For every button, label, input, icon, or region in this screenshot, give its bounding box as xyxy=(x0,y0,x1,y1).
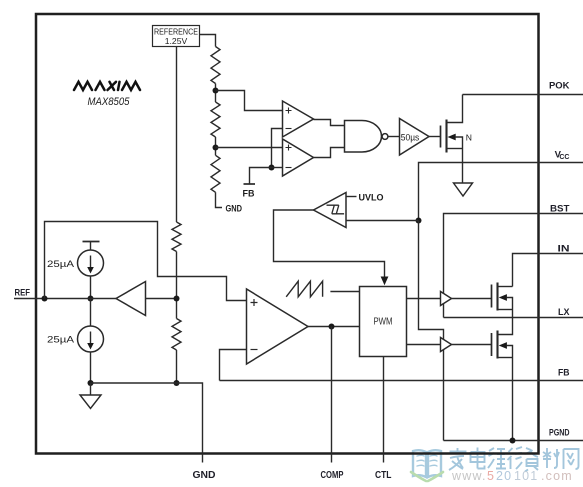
wire driver B to Q3 gate xyxy=(452,344,492,346)
pin wire POK xyxy=(463,94,583,96)
resistor R5 xyxy=(172,319,181,351)
svg-text:REFERENCE: REFERENCE xyxy=(154,26,198,36)
wire tap1 to comparator U1 + input xyxy=(216,91,283,111)
resistor R4 xyxy=(172,222,181,252)
svg-text:CTL: CTL xyxy=(375,470,392,481)
wire error amp minus to FB line xyxy=(220,350,247,381)
reference box U-REF xyxy=(153,26,200,47)
wire REF to error amp + input (crosses divider) xyxy=(45,222,247,301)
node dot I2/gnd rail xyxy=(88,380,94,386)
wire buffer input to divider xyxy=(146,298,177,300)
arrow into PWM top xyxy=(381,277,389,286)
wire sawtooth to PWM xyxy=(330,291,359,293)
wire tap2 to comparator U2 + input xyxy=(216,147,283,149)
watermark: book icon xyxy=(411,450,443,481)
ground symbol (under current sources) xyxy=(80,395,101,409)
wire R4 to tap xyxy=(176,252,178,319)
node dot REF/I1 xyxy=(88,296,94,302)
wire driver A return to LX xyxy=(443,303,445,318)
svg-text:CC: CC xyxy=(559,154,569,161)
glyph 7 xyxy=(564,449,579,469)
wire driver A to Q2 gate xyxy=(452,298,492,300)
transistor Q1 (POK open-drain NMOS) xyxy=(441,95,463,184)
MAXIM logo xyxy=(74,82,140,90)
wire stub to ground symbol xyxy=(90,383,92,395)
resistor R1 xyxy=(211,47,220,84)
node dot ladder tap 2 xyxy=(213,145,219,151)
wire reference box down to divider R4 xyxy=(176,47,178,223)
plus sign xyxy=(251,299,258,306)
pin wire BST xyxy=(444,214,583,295)
resistor R2 xyxy=(211,102,220,137)
svg-text:PGND: PGND xyxy=(549,428,570,439)
wire junction to UVLO comparator input xyxy=(346,220,419,222)
node dot FB sense xyxy=(269,165,275,171)
svg-text:IN: IN xyxy=(558,244,570,255)
node dot ladder tap 1 xyxy=(213,88,219,94)
driver buffer B xyxy=(441,338,452,352)
wire PWM out1 to driver A xyxy=(407,298,441,300)
glyph 6 xyxy=(543,448,559,468)
op-amp U5 (UVLO comparator, points left) xyxy=(314,193,347,228)
ground rail wire to GND pin xyxy=(91,383,203,463)
svg-text:50µs: 50µs xyxy=(401,131,420,142)
svg-text:BST: BST xyxy=(550,204,570,215)
wire UVLO output to PWM block xyxy=(274,210,385,277)
wire REF node to I2 xyxy=(90,299,92,327)
node dot PGND junction xyxy=(510,438,516,444)
pin wire LX xyxy=(444,317,583,319)
wire NAND output to 50us buffer xyxy=(388,136,400,138)
glyph 2 xyxy=(471,448,485,469)
node dot REF riser xyxy=(42,296,48,302)
pin wire PGND xyxy=(444,440,583,442)
transistor Q2 (high-side NMOS) xyxy=(492,283,513,318)
svg-text:REF: REF xyxy=(15,288,31,299)
sawtooth oscillator symbol xyxy=(286,281,322,297)
wire driver B return to PGND xyxy=(443,350,445,441)
ground symbol (under Q1) xyxy=(454,183,473,196)
hysteresis symbol xyxy=(327,205,345,214)
PWM block U6 xyxy=(360,287,407,357)
comparator U1 xyxy=(283,101,314,137)
current source I2 (25uA) xyxy=(78,326,104,352)
wire I2 to ground rail xyxy=(90,352,92,383)
svg-text:.com: .com xyxy=(541,469,573,483)
glyph 1 xyxy=(449,448,466,470)
node dot VCC/UVLO junction xyxy=(416,218,422,224)
svg-text:PWM: PWM xyxy=(374,316,393,327)
wire reference box to ladder top xyxy=(200,35,216,47)
op-amp U8 (error amplifier) xyxy=(247,289,309,364)
resistor R3 xyxy=(211,155,220,192)
svg-text:FB: FB xyxy=(243,189,255,200)
wire buffer output to REF node xyxy=(91,298,117,300)
svg-text:www.: www. xyxy=(451,469,487,483)
svg-text:1.25V: 1.25V xyxy=(165,36,188,46)
watermark: url text xyxy=(451,469,573,483)
svg-text:GND: GND xyxy=(193,470,216,481)
svg-text:25µA: 25µA xyxy=(47,258,75,269)
svg-text:25µA: 25µA xyxy=(47,333,75,344)
wire VCC rail down to low-side driver xyxy=(419,221,444,341)
glyph 3 xyxy=(488,448,506,469)
wire R2 to R3 xyxy=(215,137,217,155)
svg-text:20: 20 xyxy=(496,469,512,483)
wire FB node to U2 minus input xyxy=(272,167,283,169)
glyph 4 xyxy=(508,447,523,469)
pin wire IN xyxy=(513,254,583,287)
svg-text:COMP: COMP xyxy=(321,470,344,481)
wire I1 to REF node xyxy=(90,276,92,299)
svg-text:POK: POK xyxy=(549,81,570,92)
wire PWM bottom to CTL pin xyxy=(383,357,385,463)
pin wire REF xyxy=(14,298,91,300)
wire COMP node down to pin xyxy=(331,327,333,463)
FB terminal bar xyxy=(244,183,256,185)
wire R5 to ground rail xyxy=(176,350,178,383)
NAND gate U3 xyxy=(345,121,388,153)
transistor Q3 (low-side NMOS) xyxy=(492,318,513,441)
wire U1 output to NAND xyxy=(314,120,345,126)
svg-text:101: 101 xyxy=(514,469,538,483)
driver buffer A xyxy=(441,292,452,306)
node dot divider/gnd rail xyxy=(174,380,180,386)
wire R3 to GND net stub xyxy=(216,192,223,207)
node dot buffer input tap xyxy=(174,296,180,302)
svg-text:MAX8505: MAX8505 xyxy=(88,96,131,108)
wire buffer to Q1 gate xyxy=(429,136,441,138)
wire U2 output to NAND xyxy=(314,148,345,158)
svg-text:N: N xyxy=(466,132,472,142)
IC boundary box xyxy=(36,14,539,454)
50us delay buffer U4 xyxy=(400,119,430,156)
watermark: stylized chinese glyphs xyxy=(449,447,579,472)
minus sign xyxy=(251,349,258,351)
wire UVLO net stub xyxy=(346,196,357,198)
wire error amp output to PWM xyxy=(308,326,360,328)
comparator U2 xyxy=(283,139,314,176)
wire PWM out2 to driver B xyxy=(407,344,441,346)
glyph 5 xyxy=(525,448,539,472)
pin wire FB (long feedback line) xyxy=(220,380,583,382)
current source I1 (25uA) xyxy=(78,242,104,277)
node dot COMP xyxy=(329,324,335,330)
svg-text:GND: GND xyxy=(226,204,243,215)
pin wire VCC xyxy=(419,163,583,221)
wire FB terminal to node xyxy=(250,168,272,185)
wire U1 minus input xyxy=(272,129,283,168)
svg-text:LX: LX xyxy=(558,307,570,318)
svg-text:FB: FB xyxy=(558,368,570,379)
buffer amp U7 (points left) xyxy=(116,282,146,316)
svg-text:UVLO: UVLO xyxy=(359,193,384,204)
wire R1 to R2 xyxy=(215,84,217,103)
svg-text:5: 5 xyxy=(487,469,495,483)
